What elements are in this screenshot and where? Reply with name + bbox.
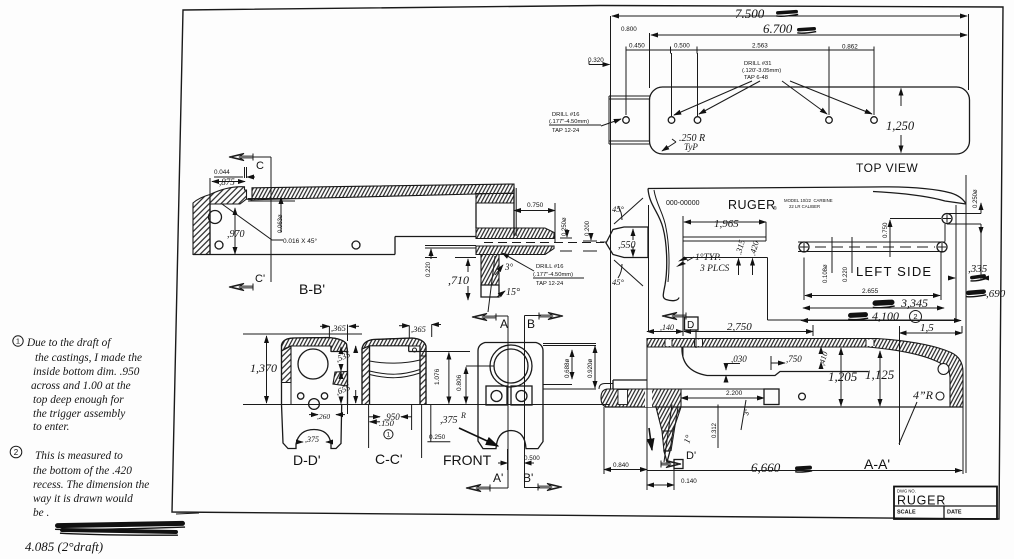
svg-text:0.016 X 45°: 0.016 X 45° [283,237,317,245]
svg-text:RUGER: RUGER [897,494,946,508]
svg-text:0.108ø: 0.108ø [823,264,829,283]
svg-text:®: ® [773,205,777,212]
svg-text:0.250: 0.250 [429,434,446,441]
svg-text:the bottom of the .420: the bottom of the .420 [33,465,132,477]
svg-text:45°: 45° [612,204,625,214]
svg-text:0.140: 0.140 [681,478,697,485]
svg-text:,710: ,710 [448,273,469,287]
svg-text:(.120'-3.05mm): (.120'-3.05mm) [742,68,781,74]
svg-text:3°: 3° [504,262,514,272]
svg-text:C-C': C-C' [375,451,403,467]
svg-text:2: 2 [14,448,19,457]
svg-text:1.076: 1.076 [434,368,441,385]
svg-text:(.177"-4.50mm): (.177"-4.50mm) [533,272,573,278]
svg-text:0.840: 0.840 [613,462,629,469]
svg-text:,030: ,030 [731,354,747,364]
svg-text:TOP VIEW: TOP VIEW [856,161,918,175]
svg-text:TAP 6-48: TAP 6-48 [744,75,768,81]
svg-text:B': B' [523,471,533,485]
svg-text:1,125: 1,125 [865,367,895,382]
svg-text:2.563: 2.563 [752,43,768,50]
svg-text:0.688ø: 0.688ø [564,359,571,378]
svg-text:This is measured to: This is measured to [35,450,123,462]
svg-text:MODEL 10/22 CARBINE: MODEL 10/22 CARBINE [784,198,833,203]
svg-text:,690: ,690 [986,288,1006,300]
svg-text:the trigger assembly: the trigger assembly [33,408,126,420]
svg-text:A': A' [493,471,503,485]
svg-text:across and 1.00 at the: across and 1.00 at the [31,380,131,392]
svg-text:0.920ø: 0.920ø [587,359,594,378]
svg-text:6.700: 6.700 [763,21,793,36]
svg-text:6,660: 6,660 [751,460,781,475]
svg-text:FRONT: FRONT [443,452,492,468]
svg-text:DATE: DATE [947,510,962,516]
svg-text:,260: ,260 [317,412,330,421]
svg-text:R: R [460,411,466,420]
svg-text:0.450: 0.450 [629,43,645,50]
svg-text:the castings, I made the: the castings, I made the [35,352,142,364]
svg-text:(.177"-4.50mm): (.177"-4.50mm) [549,119,589,125]
svg-text:A-A': A-A' [864,456,890,472]
svg-text:way it is drawn would: way it is drawn would [33,493,133,505]
svg-text:1,5: 1,5 [920,322,934,334]
svg-text:0.044: 0.044 [214,169,230,176]
svg-text:0.312: 0.312 [712,422,718,438]
svg-text:0.806: 0.806 [456,374,463,391]
svg-text:2: 2 [913,312,917,321]
svg-text:1: 1 [16,337,20,346]
svg-text:,335: ,335 [968,263,988,275]
svg-text:top deep enough for: top deep enough for [33,394,124,406]
svg-text:C: C [256,160,264,172]
svg-text:0.500: 0.500 [674,43,690,50]
svg-text:2,750: 2,750 [727,321,752,333]
svg-text:,970: ,970 [227,229,245,240]
svg-text:1,250: 1,250 [886,119,915,133]
svg-text:B: B [527,317,535,331]
svg-text:45°: 45° [612,277,625,287]
svg-text:22 LR CALIBER: 22 LR CALIBER [789,204,820,209]
svg-text:TAP 12-24: TAP 12-24 [536,281,564,287]
svg-text:1: 1 [387,432,391,439]
svg-text:C': C' [255,273,265,285]
svg-text:Due to the draft of: Due to the draft of [26,337,112,349]
svg-text:3,345: 3,345 [900,296,928,310]
svg-text:4,100: 4,100 [872,309,899,323]
svg-text:TyP: TyP [684,142,698,152]
svg-text:0.750: 0.750 [527,202,544,209]
svg-text:be .: be . [33,507,49,519]
svg-text:2.200: 2.200 [726,390,743,397]
svg-text:0.500: 0.500 [524,455,540,462]
svg-text:4.085 (2°draft): 4.085 (2°draft) [25,539,103,554]
svg-text:,375: ,375 [440,415,458,426]
svg-text:,375: ,375 [305,435,319,444]
svg-text:4”R: 4”R [913,388,934,402]
svg-text:,365: ,365 [331,323,346,333]
svg-text:15°: 15° [506,287,520,298]
svg-text:SCALE: SCALE [897,510,916,516]
svg-text:,750: ,750 [786,354,802,364]
svg-text:0.750: 0.750 [882,222,889,238]
svg-text:0.320: 0.320 [588,57,604,64]
svg-text:,365: ,365 [411,324,426,334]
svg-text:D-D': D-D' [293,452,321,468]
svg-text:0.220: 0.220 [426,261,432,277]
svg-text:TAP 12-24: TAP 12-24 [552,128,580,134]
svg-text:recess. The dimension the: recess. The dimension the [33,479,149,491]
svg-text:DRILL #31: DRILL #31 [744,61,772,67]
svg-text:LEFT SIDE: LEFT SIDE [856,264,932,279]
svg-text:0.220: 0.220 [843,266,849,282]
svg-text:,140: ,140 [660,323,674,332]
svg-text:1°TYP.: 1°TYP. [695,252,721,263]
svg-text:1,370: 1,370 [250,361,277,375]
svg-text:1,965: 1,965 [714,218,739,230]
svg-text:7.500: 7.500 [735,6,765,21]
svg-text:A: A [500,317,508,331]
svg-text:3 PLCS: 3 PLCS [699,264,730,274]
svg-text:0.250ø: 0.250ø [973,189,979,208]
svg-text:B-B': B-B' [299,281,325,297]
svg-text:2.655: 2.655 [862,288,879,295]
svg-text:0.800: 0.800 [621,26,637,33]
svg-text:to enter.: to enter. [33,421,69,433]
svg-text:DRILL #16: DRILL #16 [552,112,580,118]
svg-text:1,205: 1,205 [828,369,858,384]
svg-text:000-00000: 000-00000 [666,200,700,207]
svg-text:,875: ,875 [219,177,235,187]
svg-text:inside bottom dim. .950: inside bottom dim. .950 [33,366,140,378]
svg-text:0.200: 0.200 [585,220,591,236]
svg-text:RUGER: RUGER [728,198,776,212]
svg-text:DRILL #16: DRILL #16 [536,264,564,270]
svg-text:D: D [687,320,694,331]
svg-text:0.862: 0.862 [842,44,858,51]
svg-text:.150: .150 [379,418,395,428]
svg-text:D': D' [686,450,696,462]
